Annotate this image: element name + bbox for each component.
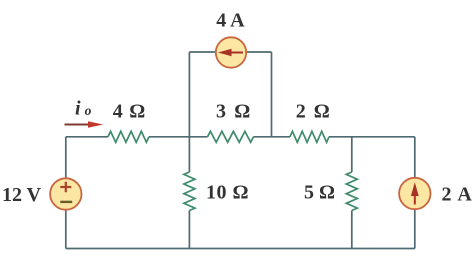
svg-text:3 Ω: 3 Ω: [216, 101, 252, 123]
wire: left branch upper (rail to 12V source): [65, 137, 67, 179]
wire: middle rail left segment (left node to 4ohm): [66, 136, 108, 138]
wire: right branch lower (2A source to bottom rail): [414, 209, 416, 249]
wire: 4A loop right vertical: [271, 52, 273, 137]
wire: middle rail right segment (2ohm to right node): [329, 136, 415, 138]
current source I1 4A arrow (points left): [218, 49, 243, 57]
svg-text:10 Ω: 10 Ω: [206, 182, 249, 204]
resistor R 3ohm zigzag: [208, 131, 254, 142]
current arrow i_o: [65, 121, 104, 127]
wire: 4A loop top-left segment: [189, 51, 216, 53]
svg-text:4 A: 4 A: [216, 9, 245, 31]
resistor R 10ohm zigzag (vertical): [184, 172, 195, 211]
wire: 5ohm branch bottom: [351, 211, 353, 249]
wire: 10ohm branch top (4A loop left vertical down to rail and to zigzag): [188, 52, 190, 172]
resistor R 4ohm zigzag: [108, 131, 149, 142]
wire: 10ohm branch bottom: [188, 211, 190, 249]
current source I2 2A circle: [399, 178, 430, 209]
current source I1 4A circle: [216, 37, 246, 67]
voltage source V1 minus sign: [60, 201, 72, 203]
svg-text:5 Ω: 5 Ω: [304, 182, 335, 204]
wire: 5ohm branch top: [351, 137, 353, 172]
bottom rail wire: [66, 248, 415, 250]
wire: middle rail between 4ohm and 3ohm: [149, 136, 208, 138]
voltage source V1 12V circle: [50, 178, 81, 209]
resistor R 2ohm zigzag: [290, 131, 329, 142]
wire: 4A loop top-right segment: [246, 51, 272, 53]
svg-text:4 Ω: 4 Ω: [113, 101, 146, 123]
wire: middle rail between 3ohm and 2ohm: [254, 136, 291, 138]
wire: right branch upper (rail to 2A source): [414, 137, 416, 178]
voltage source V1 plus sign: [60, 182, 71, 192]
svg-text:12 V: 12 V: [2, 184, 42, 206]
svg-text:2 A: 2 A: [442, 184, 473, 206]
resistor R 5ohm zigzag (vertical): [346, 172, 357, 211]
wire: left branch lower (12V source to bottom rail): [65, 210, 67, 249]
svg-text:2 Ω: 2 Ω: [296, 101, 332, 123]
current source I2 2A arrow (points up): [411, 182, 419, 204]
